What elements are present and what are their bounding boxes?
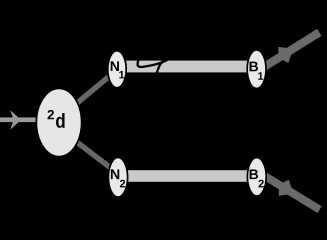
label N1 [111,61,125,78]
wire: connector 2d to N2 [58,128,118,174]
label B1 [249,62,263,80]
node N1 [108,51,126,88]
wire: outgoing line from B1 [260,32,319,69]
wire: incoming line into 2d vertex [0,117,36,122]
label N2 [111,169,125,187]
node 2d (vertex ellipse) [36,88,81,156]
node B2 [247,158,266,197]
wire: outgoing line from B2 [260,173,320,210]
arrowhead on B2 outgoing line [274,177,298,202]
label 2d [48,110,65,128]
wire: connector 2d to N1 [58,70,117,119]
arrowhead on incoming line [10,110,21,130]
wire: bar N1 to B1 [117,61,257,73]
arrowhead on B1 outgoing line [274,41,298,66]
label B2 [250,169,264,187]
wire: bar N2 to B2 [118,170,257,182]
node B1 [247,50,266,89]
squiggle mark on N1-B1 bar [138,57,168,75]
node N2 [108,157,127,197]
